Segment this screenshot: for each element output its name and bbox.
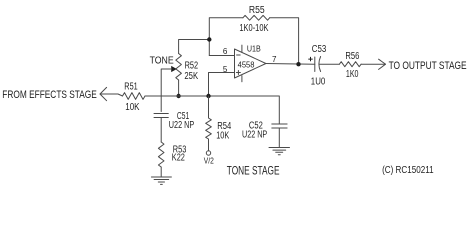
- svg-text:U22 NP: U22 NP: [169, 120, 195, 131]
- output arrow: [379, 59, 386, 69]
- ground G2: [269, 148, 290, 155]
- svg-text:TONE: TONE: [150, 56, 174, 67]
- wire output: [266, 63, 315, 66]
- op-amp power stubs: [241, 45, 243, 82]
- resistor R54: [206, 96, 212, 151]
- resistor R53: [158, 142, 164, 167]
- svg-text:10K: 10K: [125, 102, 139, 113]
- svg-text:25K: 25K: [184, 71, 198, 82]
- wire input: [100, 94, 123, 96]
- wire C52 to ground: [278, 128, 280, 148]
- svg-text:1K0: 1K0: [346, 69, 359, 80]
- svg-text:C53: C53: [312, 44, 327, 55]
- svg-text:R56: R56: [345, 51, 359, 62]
- svg-text:10K: 10K: [216, 130, 229, 141]
- svg-text:4558: 4558: [238, 60, 255, 70]
- capacitor C52: [272, 124, 287, 128]
- resistor R55: [243, 15, 270, 20]
- svg-text:5: 5: [223, 64, 228, 74]
- capacitor C53: [315, 57, 321, 72]
- svg-text:K22: K22: [172, 153, 185, 164]
- svg-text:1K0-10K: 1K0-10K: [239, 23, 268, 34]
- svg-text:U22 NP: U22 NP: [242, 130, 267, 141]
- potentiometer R52: [176, 54, 182, 81]
- terminal V/2: [206, 151, 210, 155]
- svg-text:(C) RC150211: (C) RC150211: [382, 165, 434, 176]
- wire pot bottom: [178, 80, 180, 96]
- node feedback junction: [207, 37, 211, 41]
- svg-text:V/2: V/2: [204, 156, 214, 166]
- op-amp U1B: [235, 49, 266, 78]
- capacitor C51: [154, 114, 168, 118]
- label C53 plus: [308, 57, 312, 61]
- input arrow: [100, 87, 107, 100]
- wire C53 to R56: [320, 63, 340, 65]
- node pin5 junction: [206, 94, 210, 98]
- svg-text:U1B: U1B: [247, 44, 261, 54]
- svg-text:R51: R51: [124, 82, 138, 93]
- op-amp plus: [236, 71, 240, 75]
- wire feedback top: [209, 18, 243, 56]
- ground G1: [151, 177, 171, 184]
- wire to pot top: [179, 40, 210, 54]
- resistor R56: [339, 62, 361, 67]
- node pot bottom junction: [176, 94, 180, 98]
- svg-text:FROM EFFECTS STAGE: FROM EFFECTS STAGE: [2, 89, 97, 101]
- node output junction: [296, 62, 300, 66]
- svg-text:7: 7: [272, 54, 277, 64]
- wire pin5: [209, 73, 235, 97]
- wire C51 to R53: [160, 118, 162, 143]
- wire main line: [145, 96, 279, 124]
- wire wiper: [161, 69, 171, 112]
- resistor R51: [123, 93, 146, 100]
- svg-text:TONE STAGE: TONE STAGE: [227, 166, 280, 178]
- svg-text:1U0: 1U0: [311, 76, 326, 87]
- wiper arrow R52: [171, 66, 177, 72]
- wire R53 to ground: [160, 167, 162, 177]
- svg-text:6: 6: [223, 46, 228, 56]
- svg-text:TO OUTPUT STAGE: TO OUTPUT STAGE: [389, 60, 467, 72]
- wire to output arrow: [361, 63, 385, 65]
- op-amp minus: [237, 54, 241, 56]
- wire pin6: [209, 55, 234, 57]
- svg-text:R55: R55: [249, 5, 265, 16]
- wire feedback right: [270, 18, 299, 64]
